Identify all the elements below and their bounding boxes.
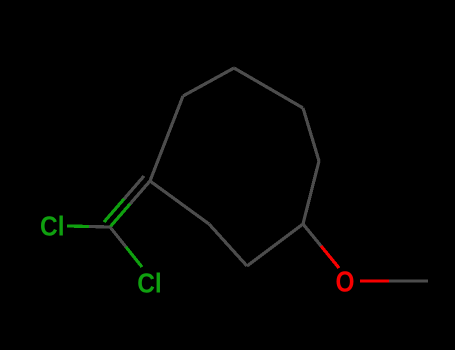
exocyclic C=C double bond, main line CCl2 side (green half) xyxy=(110,204,130,227)
ring bond P4-P5 xyxy=(247,224,303,266)
bond C-Cl2 green half xyxy=(126,247,142,267)
bond P4-O gray half xyxy=(303,224,321,246)
bond P4-O red half xyxy=(321,246,339,268)
ring bond P1-P2 xyxy=(150,96,183,181)
exocyclic C=C double bond, second line gray half xyxy=(124,176,144,199)
bond C-Cl1 green half xyxy=(67,224,89,228)
svg-text:O: O xyxy=(336,267,355,299)
svg-text:Cl: Cl xyxy=(40,211,65,242)
ring bond X-P4 xyxy=(303,161,319,224)
bond O-CH3 gray half (methyl side) xyxy=(389,279,428,282)
exocyclic C=C double bond, main line C side (gray half) xyxy=(130,181,150,204)
ring bond P6-P1 xyxy=(150,181,209,224)
ring bond apex-P3 xyxy=(234,68,303,108)
bond C-Cl1 gray half xyxy=(89,225,110,229)
ring bond P3-X xyxy=(303,108,319,161)
exocyclic C=C double bond, second line green half xyxy=(104,199,124,222)
bond O-CH3 red half xyxy=(360,279,389,282)
bond C-Cl2 gray half xyxy=(110,227,126,247)
ring bond P2-apex xyxy=(183,68,234,96)
ring bond P5-P6 xyxy=(209,224,247,266)
svg-text:Cl: Cl xyxy=(137,268,162,299)
